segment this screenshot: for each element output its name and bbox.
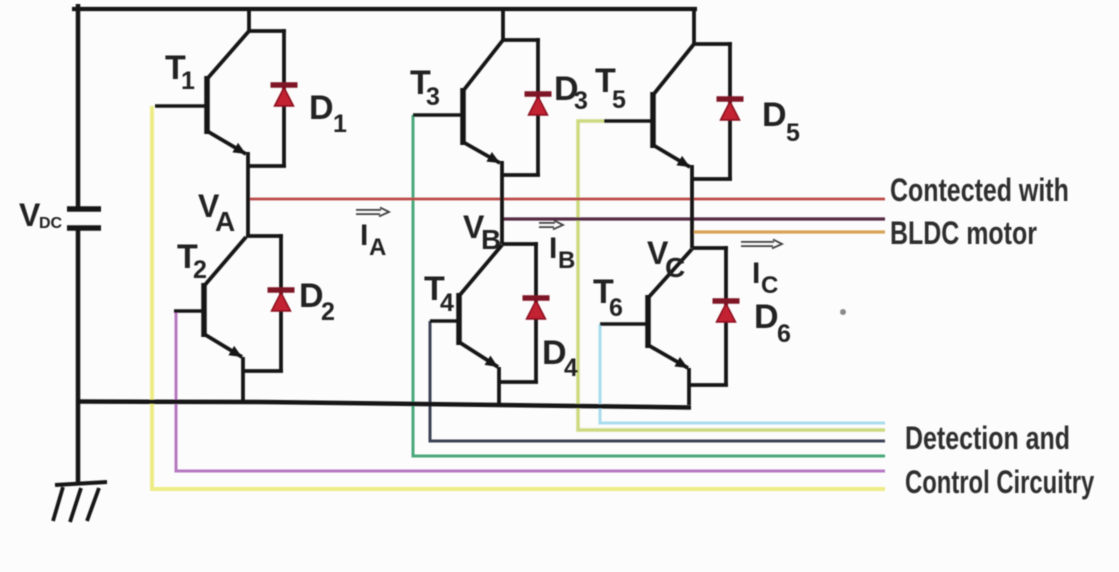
wire: D2 branch vertical [279,234,283,371]
wire: D6 branch vertical [724,246,728,385]
svg-text:D: D [542,334,567,372]
wire: phase C node vertical (T5 emitter to T6 collector) [690,165,694,248]
transistor T6 [600,249,692,368]
svg-text:2: 2 [193,256,207,284]
diode D4 [523,298,550,319]
wire: navy, T4 base to Detection/Control [430,321,885,441]
wire: leg3 top drop from rail [692,7,696,44]
wire: T2 collector jog to D2 [246,234,283,238]
svg-text:D: D [754,298,779,336]
svg-text:BLDC motor: BLDC motor [890,216,1037,252]
wire: leg2 jog to D3 [503,38,540,42]
wire: D3 bottom connect [502,173,540,177]
text: Detection and [905,421,1070,457]
transistor T5 [604,44,694,167]
wire: ground stem [76,403,81,484]
svg-text:C: C [665,252,685,283]
wire: phase B (maroon) to BLDC motor [503,217,885,220]
wire: D1 bottom connect [248,164,286,168]
wire: T4 emitter to bottom rail [497,367,501,404]
wire: phase B node vertical (T3 emitter to T4 collector) [500,161,504,244]
diode D3 [525,94,552,115]
current arrow I_A [356,207,389,216]
wire: D2 bottom connect [243,369,283,373]
svg-text:B: B [558,247,575,274]
wire: T6 collector jog to D6 [692,246,728,250]
svg-text:6: 6 [609,294,623,322]
transistor T1 [155,31,249,154]
wire: phase C (orange) to BLDC motor [694,230,885,233]
wire: cyan, T6 base to Detection/Control [600,324,885,423]
svg-text:1: 1 [181,67,195,95]
svg-text:Control Circuitry: Control Circuitry [905,464,1095,500]
transistor T2 [174,237,246,357]
wire: D1 branch vertical [282,29,286,166]
wire: yellow, T1 base to Detection/Control [152,106,885,489]
svg-text:1: 1 [333,110,347,138]
wire: D5 branch vertical [728,42,732,179]
svg-text:D: D [762,96,787,134]
svg-text:Detection and: Detection and [905,421,1070,457]
svg-text:DC: DC [39,215,63,232]
svg-text:3: 3 [574,87,588,115]
wire: left DC bus vertical (bottom) [76,228,81,403]
svg-text:Contected with: Contected with [890,173,1069,209]
wire: top DC+ rail [72,7,697,11]
wire: yellow-green, T5 base to Detection/Control [578,121,885,430]
stray ink dot [840,309,846,315]
wire: leg1 jog to D1 [249,29,286,33]
svg-text:I: I [360,219,368,252]
wire: D6 bottom connect [689,383,728,387]
wire: T6 emitter to bottom rail [687,368,691,405]
svg-text:A: A [215,206,235,237]
wire: phase A (red) to BLDC motor [249,198,885,201]
text: Contected with [890,173,1069,209]
ground symbol [53,482,107,522]
wire: leg1 top drop from rail [247,9,251,31]
current arrow I_B [539,220,563,229]
wire: D4 bottom connect [499,380,538,384]
transistor T4 [430,245,502,367]
diode D1 [271,85,298,106]
text: BLDC motor [890,216,1037,252]
wire: D5 bottom connect [692,177,732,181]
svg-text:5: 5 [612,86,626,114]
text: Control Circuitry [905,464,1095,500]
svg-text:I: I [549,232,557,265]
wire: leg3 jog to D5 [694,42,732,46]
svg-text:V: V [19,197,41,233]
svg-text:6: 6 [777,320,791,348]
wire: left DC bus vertical (top) [76,4,81,209]
wire: leg2 top drop from rail [501,9,505,40]
wire: T4 collector jog to D4 [502,242,538,246]
diode D5 [717,99,744,120]
current arrow I_C [741,239,782,248]
svg-text:4: 4 [440,289,454,317]
wire: bottom DC- rail [76,402,691,408]
wire: D4 branch vertical [534,242,538,382]
diode D6 [713,301,740,322]
svg-text:2: 2 [321,298,335,326]
svg-text:B: B [481,224,501,255]
capacitor/battery VDC plates [67,206,101,212]
svg-text:D: D [309,89,334,127]
wire: D3 branch vertical [536,38,540,175]
wire: phase A node vertical (T1 emitter to T2 collector) [246,152,250,236]
svg-text:I: I [752,257,760,290]
wire: T2 emitter to bottom rail [241,357,245,404]
transistor T3 [413,40,503,163]
svg-text:3: 3 [426,83,440,111]
diode D2 [268,290,295,311]
wire: purple, T2 base to Detection/Control [176,311,885,471]
svg-text:D: D [299,277,324,315]
svg-text:A: A [369,234,386,261]
svg-text:5: 5 [786,119,800,147]
svg-text:4: 4 [564,354,578,382]
svg-text:C: C [761,272,778,299]
wire: teal, T3 base to Detection/Control [413,115,885,456]
